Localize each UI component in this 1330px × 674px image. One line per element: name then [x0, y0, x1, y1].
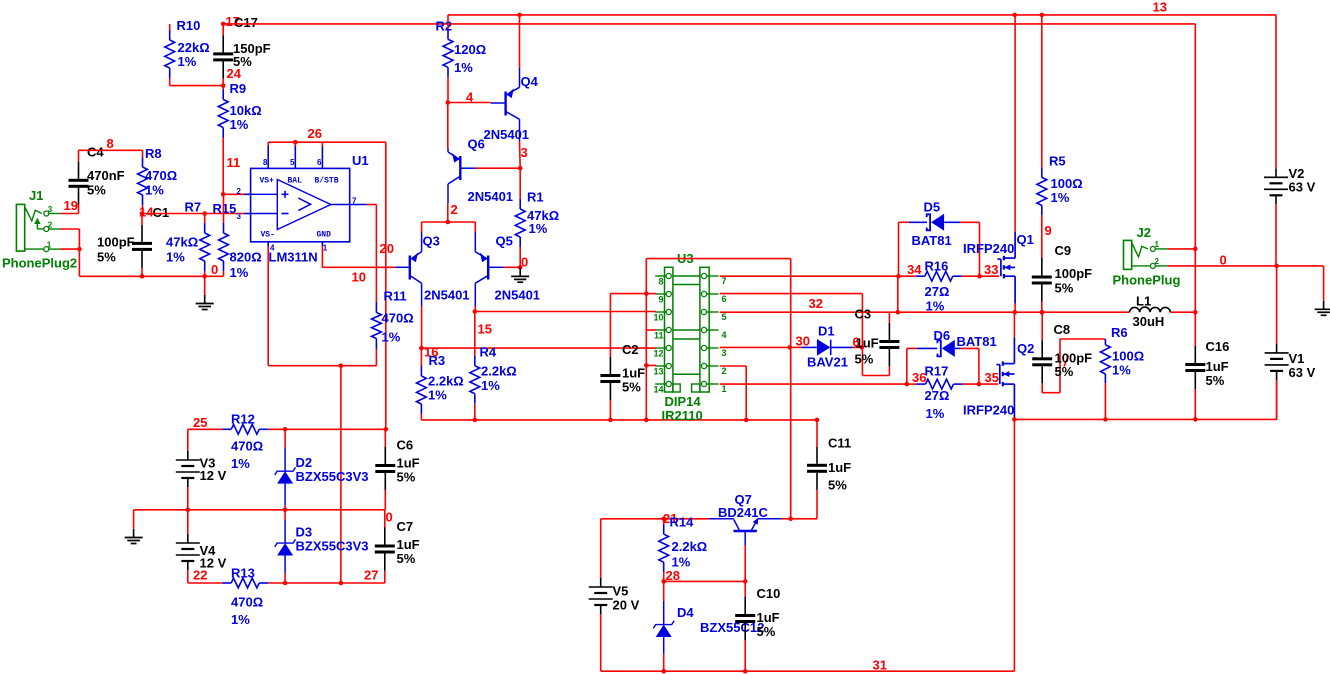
svg-text:0: 0 — [1220, 253, 1227, 268]
capacitor C10 — [744, 581, 746, 597]
wire R10 bottom to node 24 — [169, 78, 171, 86]
wire node 25 row with R12 — [188, 428, 222, 430]
svg-text:GND: GND — [317, 231, 332, 240]
svg-text:VS+: VS+ — [260, 177, 275, 186]
U1 input lines — [251, 193, 278, 195]
svg-text:R17: R17 — [925, 364, 949, 379]
wire node 16 row to U3 pin12 — [421, 347, 656, 349]
svg-text:2: 2 — [48, 221, 53, 230]
svg-text:1%: 1% — [230, 117, 249, 132]
wire R10 branch — [169, 24, 171, 30]
diode D6 loop wires — [906, 348, 908, 384]
capacitor C8 loop to R6 — [1042, 392, 1060, 394]
junction node 3 — [518, 166, 523, 171]
svg-text:1%: 1% — [230, 265, 249, 280]
svg-text:BAL: BAL — [288, 177, 303, 186]
svg-text:J1: J1 — [29, 188, 43, 203]
svg-text:C8: C8 — [1054, 322, 1071, 337]
zener diode D4 — [663, 581, 665, 601]
U1 plus sign — [282, 193, 289, 195]
svg-text:47kΩ: 47kΩ — [166, 235, 198, 250]
svg-text:1uF: 1uF — [622, 366, 645, 381]
svg-text:BAT81: BAT81 — [957, 334, 997, 349]
capacitor C6 — [384, 429, 386, 447]
transistor Q6 base wire to node 3 — [461, 167, 476, 169]
wire mid rail node 0 — [134, 509, 385, 511]
junction pin13 — [644, 363, 649, 368]
svg-text:VS-: VS- — [261, 231, 275, 240]
resistor R4 — [474, 312, 476, 356]
svg-text:11: 11 — [654, 331, 664, 341]
svg-text:10kΩ: 10kΩ — [230, 103, 262, 118]
svg-text:15: 15 — [478, 322, 492, 337]
battery V5 — [600, 519, 602, 578]
svg-text:2.2kΩ: 2.2kΩ — [428, 374, 464, 389]
transistor Q3 — [395, 266, 409, 268]
transistor Q7 BD241C — [709, 518, 734, 520]
resistor R15 — [223, 194, 225, 223]
svg-text:4: 4 — [722, 330, 727, 340]
resistor R8 — [142, 150, 144, 157]
svg-text:U1: U1 — [352, 153, 369, 168]
svg-text:D2: D2 — [296, 455, 313, 470]
svg-text:D4: D4 — [677, 605, 694, 620]
U1 top pin stubs — [267, 146, 269, 168]
svg-text:1%: 1% — [1051, 190, 1070, 205]
svg-text:33: 33 — [984, 262, 998, 277]
svg-text:2N5401: 2N5401 — [468, 189, 514, 204]
wire node 26 row — [267, 142, 269, 146]
svg-text:5%: 5% — [1206, 373, 1225, 388]
bottom rail under U3 — [421, 419, 817, 421]
svg-text:C4: C4 — [87, 145, 104, 160]
svg-text:2N5401: 2N5401 — [484, 127, 530, 142]
svg-text:C9: C9 — [1055, 243, 1072, 258]
svg-text:1%: 1% — [529, 221, 548, 236]
transistor Q1 IRFP240 — [998, 258, 1001, 260]
svg-text:C17: C17 — [234, 15, 258, 30]
svg-text:12 V: 12 V — [200, 468, 227, 483]
diode D6 — [907, 347, 917, 349]
junction node 16 — [419, 346, 424, 351]
svg-text:D1: D1 — [818, 324, 835, 339]
svg-text:R3: R3 — [429, 353, 446, 368]
svg-text:5%: 5% — [828, 478, 847, 493]
junction C11 top rail — [815, 418, 820, 423]
wire C11 bottom to Q7 node — [791, 518, 817, 520]
svg-text:63 V: 63 V — [1289, 365, 1316, 380]
svg-text:5%: 5% — [397, 551, 416, 566]
svg-text:8: 8 — [263, 158, 268, 167]
svg-text:30uH: 30uH — [1133, 314, 1165, 329]
svg-text:R13: R13 — [231, 566, 255, 581]
svg-text:25: 25 — [193, 415, 207, 430]
U1 minus sign — [282, 213, 289, 215]
wire node 8 — [79, 149, 143, 151]
svg-text:1uF: 1uF — [757, 610, 780, 625]
svg-text:R2: R2 — [436, 19, 453, 34]
U1 bottom pin stubs — [267, 242, 269, 246]
wire R16 to Q1 gate — [980, 275, 1000, 277]
junction node 34 — [896, 274, 901, 279]
svg-text:2: 2 — [1155, 257, 1160, 266]
wire node 28 row — [664, 580, 746, 582]
U1 triangle — [277, 180, 331, 230]
svg-text:5%: 5% — [757, 624, 776, 639]
svg-text:D5: D5 — [924, 200, 941, 215]
inductor L1 — [1130, 307, 1171, 312]
connector J1 phone plug symbol — [16, 204, 24, 251]
svg-text:R16: R16 — [925, 259, 949, 274]
svg-text:34: 34 — [907, 262, 922, 277]
svg-text:1%: 1% — [1112, 363, 1131, 378]
svg-text:LM311N: LM311N — [269, 250, 318, 265]
svg-text:1: 1 — [722, 384, 727, 394]
wire pin2 down to rail — [720, 365, 747, 367]
right bottom rail — [1014, 418, 1276, 420]
resistor R11 — [375, 302, 377, 313]
svg-text:30: 30 — [796, 334, 810, 349]
junction Q1 source node 32 — [1013, 310, 1018, 315]
svg-text:R12: R12 — [231, 412, 255, 427]
junction R5 top rail — [1040, 13, 1045, 18]
capacitor C1 — [141, 214, 143, 225]
capacitor C9 — [1041, 259, 1043, 276]
svg-text:8: 8 — [107, 136, 114, 151]
svg-text:9: 9 — [1045, 223, 1052, 238]
resistor R3 — [420, 348, 422, 366]
wire pin9 to C2 branch — [610, 293, 646, 295]
junction pin2 rail — [744, 418, 749, 423]
resistor R17 — [907, 383, 917, 385]
resistor R10 — [169, 30, 171, 40]
svg-text:R1: R1 — [527, 190, 544, 205]
svg-text:R5: R5 — [1049, 154, 1066, 169]
svg-text:Q1: Q1 — [1017, 232, 1034, 247]
U3 pin circles and stubs — [666, 273, 671, 278]
junction pin3 / node 30 — [788, 345, 793, 350]
junction Q7 base / C10 — [743, 579, 748, 584]
svg-text:5%: 5% — [622, 380, 641, 395]
svg-text:10: 10 — [352, 270, 366, 285]
wire L1 to C16 node — [1170, 311, 1195, 313]
svg-text:2N5401: 2N5401 — [424, 288, 470, 303]
svg-text:1: 1 — [47, 241, 52, 250]
svg-text:D6: D6 — [934, 328, 951, 343]
svg-text:1%: 1% — [428, 388, 447, 403]
junction node 4 — [446, 100, 451, 105]
svg-text:100Ω: 100Ω — [1112, 349, 1144, 364]
svg-text:2: 2 — [237, 187, 242, 196]
svg-text:5%: 5% — [1055, 364, 1074, 379]
wire J2 tip to vertical — [1168, 248, 1195, 250]
svg-text:19: 19 — [64, 198, 78, 213]
capacitor C7 — [384, 510, 386, 528]
svg-text:1%: 1% — [926, 299, 945, 314]
Q2 source wire — [1013, 384, 1015, 418]
svg-text:470Ω: 470Ω — [145, 168, 177, 183]
svg-text:R8: R8 — [145, 146, 162, 161]
resistor R14 — [663, 519, 665, 524]
svg-text:0: 0 — [521, 255, 528, 270]
wire node17 top rail to J2 (long horizontal) — [223, 23, 1195, 25]
junction Q5 base / ground node 0 — [518, 265, 523, 270]
svg-text:DIP14: DIP14 — [665, 394, 702, 409]
svg-text:7: 7 — [722, 276, 727, 286]
ground left of V4 — [133, 510, 135, 529]
ground below R1 — [519, 267, 521, 276]
wire J1 ring down — [60, 228, 79, 230]
svg-text:C11: C11 — [828, 436, 851, 451]
svg-text:PhonePlug: PhonePlug — [1113, 273, 1181, 288]
junction node 33 — [977, 274, 982, 279]
Q1 source wire — [1014, 276, 1016, 303]
wire U1 pin4 down — [267, 246, 269, 366]
resistor R5 — [1041, 15, 1043, 168]
svg-text:R4: R4 — [480, 345, 497, 360]
junction C16 rail — [1193, 417, 1198, 422]
resistor R2 — [447, 15, 449, 29]
IC U3 DIP14 body — [665, 267, 673, 392]
junction node 28 — [661, 579, 666, 584]
wire node 21 row — [601, 518, 710, 520]
svg-text:C10: C10 — [757, 586, 781, 601]
svg-text:2: 2 — [451, 202, 458, 217]
svg-text:V5: V5 — [613, 584, 629, 599]
wire J1 sleeve to rail — [60, 248, 79, 250]
svg-text:32: 32 — [809, 296, 823, 311]
svg-text:3: 3 — [237, 212, 242, 221]
junction D5 branch on node32 rail — [896, 310, 901, 315]
svg-text:470Ω: 470Ω — [382, 311, 414, 326]
svg-text:2.2kΩ: 2.2kΩ — [672, 539, 708, 554]
svg-text:Q6: Q6 — [468, 137, 485, 152]
wire pin11 stub — [646, 329, 656, 331]
wire node 2 row — [422, 221, 476, 223]
junction Q7 collector / C11 / pin3 net — [788, 517, 793, 522]
zener diode D2 — [284, 429, 286, 447]
svg-text:6: 6 — [317, 158, 322, 167]
svg-text:IR2110: IR2110 — [662, 408, 703, 423]
svg-text:BAT81: BAT81 — [912, 233, 952, 248]
svg-text:1%: 1% — [481, 378, 500, 393]
stray red diagonal — [1064, 356, 1069, 367]
svg-text:1%: 1% — [231, 456, 250, 471]
wire node 4 to Q4 base — [448, 102, 491, 104]
junction V2/V1 node 0 — [1274, 264, 1279, 269]
junction R6 rail — [1103, 417, 1108, 422]
wire J2 vertical — [1194, 24, 1196, 312]
svg-text:D3: D3 — [296, 525, 313, 540]
transistor Q6 — [447, 103, 449, 149]
svg-text:2.2kΩ: 2.2kΩ — [481, 364, 517, 379]
svg-text:120Ω: 120Ω — [454, 42, 486, 57]
svg-text:1uF: 1uF — [856, 336, 879, 351]
J1 arrow — [36, 223, 38, 229]
U1 output line — [331, 204, 350, 206]
wire node 22 row with R13 — [188, 582, 222, 584]
svg-text:C2: C2 — [622, 342, 639, 357]
wire pin7 to R11 (node 20) — [367, 204, 377, 206]
battery V3 — [187, 429, 189, 451]
J2 sleeve contact — [1150, 263, 1155, 268]
svg-text:Q3: Q3 — [423, 234, 440, 249]
svg-text:1%: 1% — [926, 406, 945, 421]
svg-text:C1: C1 — [153, 205, 170, 220]
svg-text:24: 24 — [227, 66, 242, 81]
wire node 26 vertical down to node 25 rail — [385, 142, 387, 429]
svg-text:1%: 1% — [382, 330, 401, 345]
svg-text:Q4: Q4 — [521, 74, 539, 89]
svg-text:27Ω: 27Ω — [925, 284, 950, 299]
svg-text:14: 14 — [653, 385, 663, 395]
battery V1 — [1276, 266, 1278, 344]
node 15 junction — [473, 309, 478, 314]
junction node 6 — [860, 345, 865, 350]
svg-text:13: 13 — [653, 367, 663, 377]
junction node 35 — [977, 382, 982, 387]
svg-text:R7: R7 — [185, 200, 202, 215]
resistor R7 — [204, 214, 206, 224]
svg-text:22kΩ: 22kΩ — [178, 40, 210, 55]
svg-text:22: 22 — [193, 568, 207, 583]
svg-text:11: 11 — [227, 155, 241, 170]
svg-text:BZX55C3V3: BZX55C3V3 — [296, 539, 369, 554]
junction pin9 — [644, 291, 649, 296]
resistor R16 — [899, 275, 916, 277]
junction node 24 — [221, 83, 226, 88]
svg-text:C16: C16 — [1206, 339, 1230, 354]
svg-text:R11: R11 — [384, 289, 407, 304]
wire node 14 row — [142, 213, 244, 215]
wire pin9 stub — [646, 293, 656, 295]
svg-text:8: 8 — [658, 277, 663, 287]
ground below R7 — [204, 276, 206, 295]
J1 sleeve contact — [44, 247, 49, 252]
junction node 11 / pin2 — [221, 192, 226, 197]
junction Q2 source rail — [1012, 417, 1017, 422]
op-amp U1 box — [251, 168, 350, 241]
junction Q4 collector at top rail — [517, 13, 522, 18]
svg-text:1: 1 — [323, 244, 328, 253]
svg-text:63 V: 63 V — [1289, 180, 1316, 195]
junction R7 top — [202, 211, 207, 216]
svg-text:BD241C: BD241C — [718, 505, 768, 520]
Q2 drain wire — [1013, 338, 1015, 364]
capacitor C8 — [1041, 312, 1043, 340]
svg-text:0: 0 — [386, 510, 393, 525]
svg-text:1%: 1% — [166, 250, 185, 265]
wire V1 bottom — [1276, 379, 1278, 419]
svg-text:0: 0 — [211, 262, 218, 277]
diode D5 — [899, 221, 909, 223]
junction node 25 / C6 / pin7 branch — [384, 427, 389, 432]
svg-text:5%: 5% — [97, 250, 116, 265]
svg-text:R15: R15 — [213, 201, 237, 216]
svg-text:V1: V1 — [1289, 351, 1305, 366]
U1 output pin7 stub — [350, 204, 367, 206]
svg-text:Q2: Q2 — [1017, 341, 1034, 356]
svg-text:1uF: 1uF — [828, 460, 851, 475]
svg-text:100pF: 100pF — [97, 235, 135, 250]
svg-text:100Ω: 100Ω — [1051, 176, 1083, 191]
battery V2 — [1275, 15, 1277, 168]
wire pin3 row to D1 — [720, 346, 790, 348]
battery V4 — [187, 510, 189, 534]
svg-text:C6: C6 — [397, 438, 414, 453]
svg-text:2N5401: 2N5401 — [495, 288, 541, 303]
svg-text:1uF: 1uF — [397, 456, 420, 471]
junction J2 tip — [1193, 247, 1198, 252]
svg-text:6: 6 — [722, 294, 727, 304]
capacitor C3 — [888, 312, 890, 323]
transistor Q4 — [491, 102, 505, 104]
svg-text:1%: 1% — [178, 54, 197, 69]
svg-text:820Ω: 820Ω — [230, 250, 262, 265]
svg-text:470Ω: 470Ω — [231, 595, 263, 610]
zener diode D3 — [284, 510, 286, 520]
diode D5 loop wires — [898, 222, 900, 276]
capacitor C17 — [222, 24, 224, 36]
svg-text:5%: 5% — [397, 470, 416, 485]
node 31 rail — [601, 670, 1015, 672]
svg-text:3: 3 — [521, 145, 528, 160]
junction VS- branch — [339, 363, 344, 368]
wire pin7 row to R16 — [720, 275, 899, 277]
capacitor C16 — [1194, 312, 1196, 346]
wire pin5 row node 32 rail — [720, 311, 1130, 313]
svg-text:27Ω: 27Ω — [925, 388, 950, 403]
junction C9 node 32 — [1040, 310, 1045, 315]
svg-text:470nF: 470nF — [87, 168, 125, 183]
wire pin4 row to R11 bottom — [268, 365, 376, 367]
svg-text:12: 12 — [653, 349, 663, 359]
svg-text:5%: 5% — [87, 183, 106, 198]
diode D1 — [790, 346, 802, 348]
junction node 2 — [446, 220, 451, 225]
wire VS- to node 22 rail — [340, 366, 342, 583]
junction pin11/13 rail — [644, 418, 649, 423]
wire pin6 row to C3 — [720, 293, 863, 295]
svg-text:IRFP240: IRFP240 — [963, 241, 1014, 256]
wire node 11 to U1 pin2 — [223, 193, 244, 195]
wire node 0 row right — [1168, 265, 1324, 267]
svg-text:R6: R6 — [1111, 325, 1128, 340]
svg-text:5: 5 — [290, 158, 295, 167]
U1 gt symbol — [298, 198, 310, 211]
svg-text:C7: C7 — [397, 519, 414, 534]
svg-text:Q5: Q5 — [496, 234, 513, 249]
junction node 14 — [140, 211, 145, 216]
capacitor C4 — [78, 150, 80, 162]
svg-text:L1: L1 — [1136, 294, 1151, 309]
svg-text:35: 35 — [985, 370, 999, 385]
svg-text:R14: R14 — [670, 515, 695, 530]
svg-text:IRFP240: IRFP240 — [963, 403, 1014, 418]
wire U3 top loop pin9/pin3 — [646, 258, 790, 260]
svg-text:20 V: 20 V — [613, 598, 640, 613]
svg-text:R9: R9 — [230, 81, 247, 96]
svg-text:5%: 5% — [1055, 281, 1074, 296]
junction L1 / C16 — [1193, 310, 1198, 315]
svg-text:9: 9 — [658, 295, 663, 305]
wire U1 pin1 (node 10) to Q3 base — [321, 246, 323, 267]
ground right — [1323, 266, 1325, 300]
svg-text:1%: 1% — [231, 612, 250, 627]
wire Q5 base to node 0 — [504, 266, 521, 268]
svg-text:1: 1 — [1155, 240, 1160, 249]
svg-text:3: 3 — [722, 348, 727, 358]
